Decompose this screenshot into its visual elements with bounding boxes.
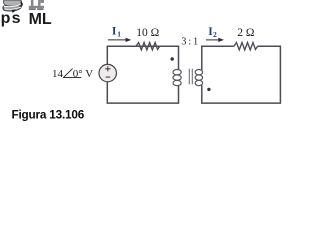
svg-text:ps: ps <box>1 10 22 27</box>
figure caption <box>12 107 85 121</box>
svg-text:2 Ω: 2 Ω <box>237 27 254 39</box>
svg-text:3 : 1: 3 : 1 <box>181 37 198 48</box>
svg-text:ML: ML <box>29 11 52 28</box>
svg-text:1: 1 <box>117 30 121 39</box>
current label I2 <box>208 26 217 39</box>
transformer secondary coil L2 <box>195 70 202 86</box>
svg-text:14: 14 <box>52 68 64 80</box>
current label I1 <box>112 26 121 39</box>
transformer turns ratio label 3:1 <box>181 37 198 48</box>
MATLAB label "ML" <box>29 11 52 28</box>
PSpice icon swirl <box>3 0 23 13</box>
source value label 14∠0° V <box>52 68 93 80</box>
svg-text:10 Ω: 10 Ω <box>136 27 159 39</box>
svg-text:2: 2 <box>213 30 217 39</box>
svg-text:I: I <box>112 26 117 38</box>
MATLAB icon grid <box>29 0 44 10</box>
transformer primary coil L1 <box>173 70 181 86</box>
PSpice label "ps" <box>1 10 22 27</box>
wire: secondary loop (right mesh) outline <box>202 46 281 103</box>
resistor R2 2 Ohm <box>234 43 258 50</box>
wire: primary loop (left mesh) outline <box>107 46 178 103</box>
resistor R1 value label 10 Ω <box>136 27 159 39</box>
current arrow I2 <box>206 38 224 42</box>
resistor R1 10 Ohm <box>136 43 160 50</box>
resistor R2 value label 2 Ω <box>237 27 254 39</box>
polarity dot primary <box>171 57 174 60</box>
svg-text:V: V <box>85 68 93 80</box>
voltage source V1 <box>99 64 116 81</box>
polarity dot secondary <box>207 88 210 91</box>
svg-text:0°: 0° <box>73 68 83 80</box>
transformer core <box>189 69 192 85</box>
svg-text:Figura 13.106: Figura 13.106 <box>12 107 85 121</box>
current arrow I1 <box>108 38 132 42</box>
